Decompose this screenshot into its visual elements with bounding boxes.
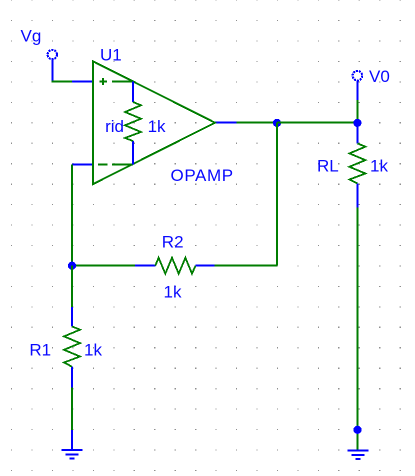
op-amp U1: [93, 61, 215, 184]
op-amp U1 pin + lead: [72, 81, 93, 83]
wire output: [236, 122, 277, 124]
wire node to R1: [71, 266, 73, 307]
svg-text:V0: V0: [369, 67, 390, 86]
wire R2 left: [72, 265, 135, 267]
wire Vg to opamp: [51, 81, 72, 83]
svg-text:1k: 1k: [148, 117, 166, 136]
resistor R1: [64, 307, 80, 388]
node RL junction: [353, 119, 361, 127]
svg-text:U1: U1: [100, 46, 122, 65]
svg-text:Vg: Vg: [21, 26, 42, 45]
svg-text:R2: R2: [162, 232, 184, 251]
node output junction: [273, 119, 281, 127]
resistor RL: [349, 123, 365, 208]
svg-text:R1: R1: [29, 340, 51, 359]
wire output down to R2: [276, 123, 278, 266]
terminal V0: [353, 71, 363, 100]
wire R1 to ground: [71, 388, 73, 431]
svg-text:1k: 1k: [84, 340, 102, 359]
resistor R2: [135, 258, 215, 274]
wire R2 right: [214, 265, 277, 267]
svg-text:rid: rid: [105, 117, 124, 136]
wire RL to ground: [356, 208, 358, 451]
resistor rid: [112, 82, 141, 165]
wire V0 to node: [356, 100, 358, 123]
ground left lead: [71, 430, 73, 450]
wire output to RL: [277, 122, 357, 124]
ground right: [348, 450, 369, 459]
svg-text:RL: RL: [317, 157, 339, 176]
wire inverting feedback vertical: [71, 165, 73, 266]
svg-text:OPAMP: OPAMP: [171, 166, 234, 185]
op-amp U1 pin - lead: [72, 164, 93, 166]
svg-text:1k: 1k: [164, 282, 182, 301]
ground left: [62, 450, 83, 459]
node ground junction: [353, 426, 361, 434]
terminal Vg: [48, 50, 57, 82]
svg-text:1k: 1k: [370, 157, 388, 176]
node feedback junction: [68, 262, 76, 270]
op-amp U1 output lead: [215, 122, 236, 124]
